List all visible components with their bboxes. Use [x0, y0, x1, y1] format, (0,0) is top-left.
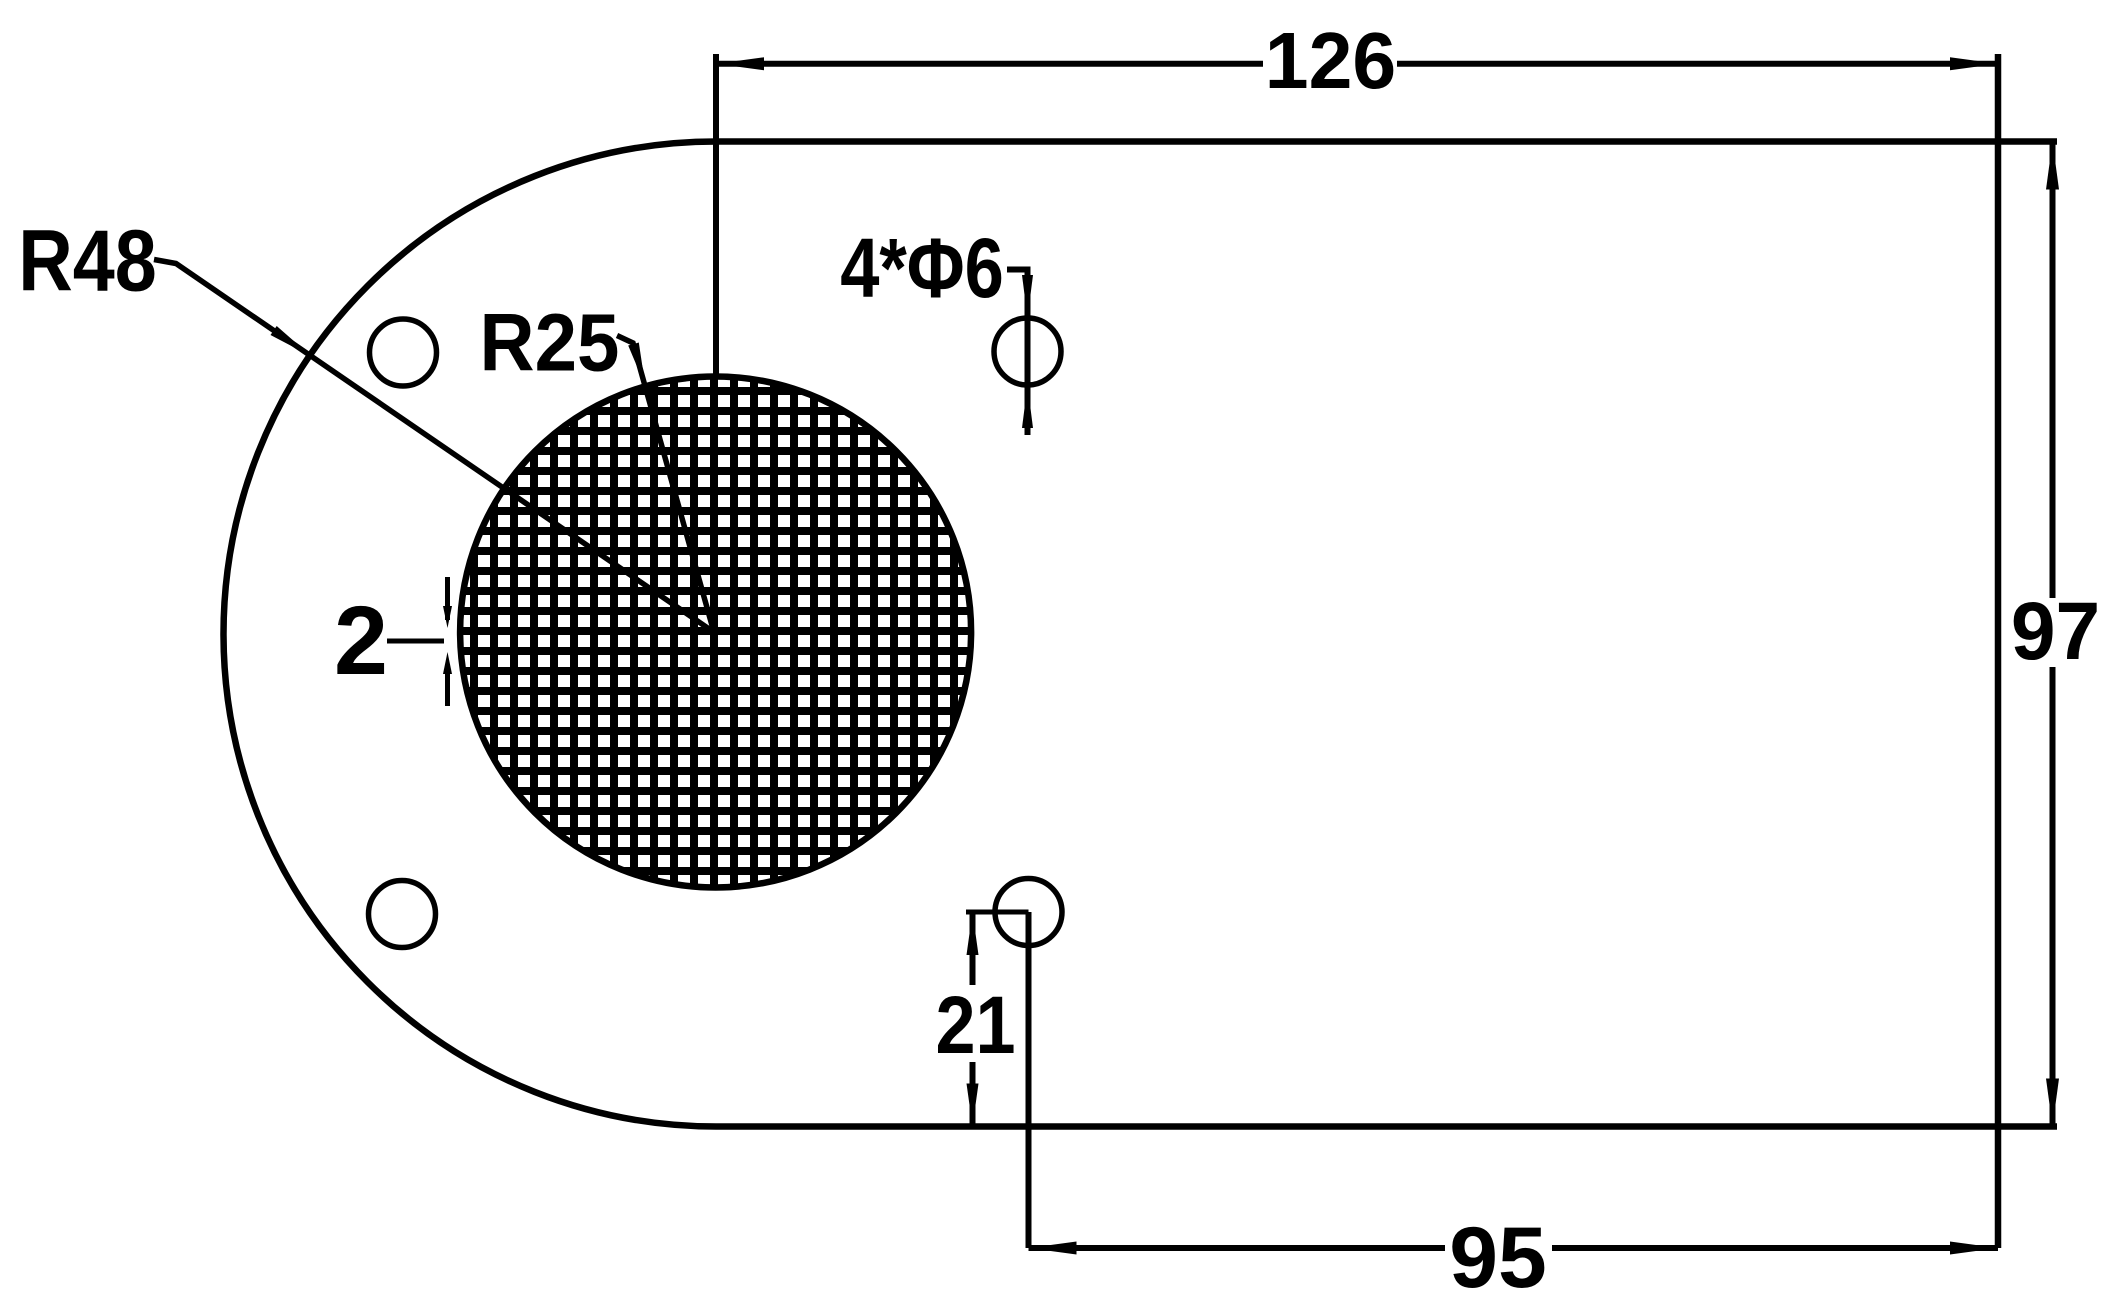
plate outline (top edge, R48 rounded end arc, bottom edge)	[224, 142, 2058, 1127]
leader elbow from 4*PHI6 to top-middle hole	[1007, 270, 1028, 436]
arrowhead left of 126	[716, 57, 764, 70]
tick above with down arrow (2 dimension)	[445, 577, 450, 620]
dimension line 97	[2050, 142, 2056, 599]
arrowhead R48 at arc	[271, 326, 312, 357]
leader R25 from label to mesh circle edge and center	[617, 336, 713, 630]
hole circle top-left	[370, 319, 437, 386]
arrowhead R25 at mesh circle edge	[628, 343, 645, 387]
hole circle bottom-middle	[995, 879, 1062, 946]
leader line from 2	[387, 639, 444, 644]
dimension line 126	[716, 61, 1263, 67]
arrowhead up at bottom of top-middle hole with tail	[1022, 385, 1033, 428]
centerline left from bottom-middle hole (21 reference)	[966, 910, 1029, 915]
arrowhead top of 21	[967, 912, 979, 955]
arrowhead top of 97	[2046, 142, 2059, 190]
arrowhead right of 126	[1950, 57, 1998, 70]
arrowhead down at top of top-middle hole	[1022, 275, 1033, 318]
extension line down from bottom-middle hole to 95 dimension	[1026, 912, 1032, 1248]
dimension line 95	[1029, 1245, 1446, 1251]
leader R48 from label to arc and on to center	[154, 260, 715, 634]
mesh circle R25 (cross-hatched screen)	[460, 377, 971, 888]
svg-text:4*Φ6: 4*Φ6	[840, 222, 1004, 315]
svg-text:R25: R25	[480, 296, 620, 388]
tick below with up arrow (2 dimension)	[445, 670, 450, 706]
arrowhead bottom of 21	[967, 1084, 979, 1127]
svg-text:R48: R48	[18, 213, 157, 310]
svg-text:21: 21	[935, 980, 1015, 1071]
hole circle top-middle	[994, 318, 1061, 385]
hole circle bottom-left	[369, 881, 436, 948]
svg-text:2: 2	[334, 586, 388, 695]
arrowhead bottom of 97	[2046, 1079, 2059, 1127]
extension line left of 126 dimension (down to mesh circle top)	[713, 54, 719, 377]
svg-text:97: 97	[2011, 586, 2100, 677]
arrowhead right of 95	[1950, 1242, 1998, 1255]
dimension line 21	[970, 912, 976, 985]
plate right edge with extension lines for 126 and 95 dimensions	[1995, 54, 2002, 1248]
svg-text:126: 126	[1265, 15, 1396, 105]
svg-text:95: 95	[1449, 1210, 1547, 1290]
arrowhead left of 95	[1029, 1242, 1077, 1255]
